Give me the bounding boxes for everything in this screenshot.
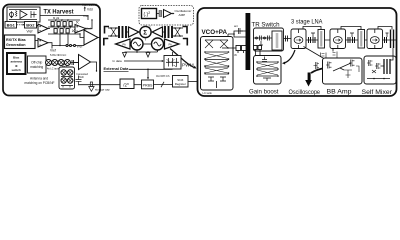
svg-text:External Data: External Data [104, 67, 130, 71]
op-amp A3 [75, 19, 93, 33]
VCO PA block [201, 37, 234, 91]
wire [134, 84, 142, 86]
scope wire [311, 68, 325, 73]
op-amp A2 [35, 39, 52, 49]
svg-text:4x LC tank: 4x LC tank [47, 68, 60, 71]
RX/TX bias generation block [5, 35, 36, 49]
svg-text:Harvested: Harvested [82, 3, 97, 7]
svg-text:AVref: AVref [85, 27, 92, 31]
tune arrow V2 [146, 53, 150, 58]
LNA output transformer [391, 30, 394, 49]
squarer block [142, 9, 157, 19]
svg-text:On/Off Ch: On/Off Ch [156, 74, 170, 78]
svg-text:PA: PA [123, 43, 127, 47]
svg-text:matching on PCB/NF: matching on PCB/NF [25, 81, 55, 85]
wire [157, 13, 160, 15]
transformer T1 [119, 26, 126, 38]
TR switch block [254, 28, 284, 51]
svg-text:Vdd: Vdd [87, 7, 93, 11]
svg-text:BG1: BG1 [7, 23, 16, 28]
wire PRBS to shift register [154, 82, 173, 87]
buffer amp A4 [84, 27, 100, 45]
mixer X2 [52, 60, 58, 66]
svg-text:AMP: AMP [179, 13, 186, 17]
svg-text:Register: Register [175, 82, 186, 86]
storage arrow down [89, 82, 94, 91]
wire drops [146, 25, 150, 28]
LC tank cluster [59, 65, 75, 89]
wire LNA input [284, 36, 397, 42]
LNA transformer 1 [318, 30, 325, 49]
self mixer block [364, 56, 396, 84]
capacitor C3 [159, 11, 162, 17]
capacitor C6 [385, 37, 387, 43]
tune arrow V1 [123, 53, 127, 58]
feedback arrow into gain boost [282, 50, 295, 65]
tune wire [125, 50, 158, 53]
bandgap BG2 [25, 22, 37, 29]
svg-text:3 stage LNA: 3 stage LNA [291, 19, 323, 26]
cross-coupling right [174, 27, 181, 37]
label External Data [104, 67, 130, 71]
PWM block [164, 56, 181, 70]
wire vco top rail [108, 28, 183, 41]
svg-text:Gain boost: Gain boost [249, 89, 279, 96]
panel frame right [198, 8, 397, 96]
label In data [113, 59, 164, 63]
svg-text:BB Amp: BB Amp [327, 89, 353, 96]
capacitor C4 [309, 37, 316, 43]
svg-text:Vref: Vref [50, 49, 56, 53]
storage capacitor [76, 76, 82, 86]
transistor Q1 [234, 24, 243, 34]
BB amp block [314, 49, 363, 85]
PA amp right [165, 39, 180, 49]
capacitor C1 [72, 60, 74, 65]
svg-text:VCO+PA: VCO+PA [202, 29, 228, 36]
wire top rail [40, 16, 88, 21]
cross-coupling left [110, 27, 117, 37]
shift register block [173, 76, 189, 88]
scope arrow [305, 73, 312, 87]
wire between oscillators [143, 43, 153, 45]
svg-text:Oscilloscope: Oscilloscope [289, 89, 321, 96]
svg-text:matching: matching [30, 65, 43, 69]
svg-text:Vref: Vref [27, 29, 33, 33]
wire diagonal to BB amp [304, 47, 341, 69]
svg-text:switch: switch [12, 68, 22, 72]
bracket top-right [183, 27, 188, 34]
PA amp left [116, 39, 131, 49]
svg-text:TX Harvest: TX Harvest [44, 8, 75, 15]
charge pump ladder [48, 19, 80, 34]
svg-text:BG2: BG2 [26, 23, 35, 28]
LNA top bias wires [303, 27, 392, 38]
svg-text:M clk: M clk [53, 16, 60, 20]
wire to panel [189, 81, 198, 83]
bracket bottom-left [104, 39, 109, 46]
wire arrow [172, 13, 175, 15]
bandgap BG1 [5, 22, 17, 29]
op-amp A1 [37, 24, 51, 33]
dashed wire BG1 to BG2 [17, 24, 24, 26]
mixer X4 [64, 60, 70, 66]
svg-text:Self Mixer: Self Mixer [362, 89, 393, 96]
wire mixer row [46, 62, 78, 64]
amp A7 [129, 27, 139, 37]
mixer X3 [58, 60, 64, 66]
svg-text:Generation: Generation [6, 43, 26, 47]
svg-text:Off-chip: Off-chip [31, 61, 42, 65]
svg-text:PAD: PAD [79, 75, 84, 79]
svg-text:In data: In data [113, 59, 123, 63]
mixer X1 [46, 60, 52, 66]
LNA cell 1 [291, 29, 306, 49]
svg-text:Vref: Vref [83, 14, 89, 18]
wire to divider [79, 84, 121, 86]
wire LNA out [392, 48, 394, 56]
LNA transformer 2 [358, 30, 365, 49]
LNA cell 2 [330, 29, 346, 49]
transformer T2 [165, 26, 172, 38]
label Oscillations AMP [175, 9, 192, 17]
gain boost block [254, 56, 282, 85]
wire VCO to antenna [228, 31, 246, 37]
PRBS block [142, 80, 154, 89]
off-chip matching block [28, 56, 47, 73]
amp A6 [164, 10, 172, 18]
node phi Vref [52, 34, 84, 48]
divider block [120, 79, 134, 89]
antenna caption [25, 77, 55, 85]
wire external data [129, 69, 173, 80]
svg-text:ant: ant [234, 24, 238, 28]
svg-text:LC tank: LC tank [203, 91, 213, 95]
bias matching block [7, 53, 26, 74]
antenna bar [246, 13, 251, 70]
svg-text:PWM: PWM [182, 63, 194, 69]
capacitor C7 [254, 46, 262, 56]
buffer amp A5 [74, 55, 97, 72]
bias box Vb [222, 46, 246, 58]
bracket bottom-right [183, 39, 188, 46]
summing node [140, 26, 151, 37]
label harvested PAD [77, 72, 89, 79]
svg-text:PRBS: PRBS [143, 84, 154, 88]
svg-text:5.8G NFC/LC: 5.8G NFC/LC [50, 53, 66, 57]
svg-text:storage cap: storage cap [95, 88, 110, 92]
wire PWM to tune [172, 52, 174, 56]
bracket top-left [105, 27, 110, 34]
svg-text:Σ: Σ [143, 29, 147, 36]
LNA cell 3 [367, 29, 383, 49]
capacitor C5 [348, 37, 355, 43]
node Harvested Vdd [82, 3, 97, 12]
envelope detector frame [139, 6, 194, 26]
svg-text:PA: PA [169, 43, 173, 47]
startup reference box U1 [7, 7, 40, 22]
oscillator O1 [131, 38, 143, 50]
blowup arrow to right panel [170, 49, 197, 69]
svg-text:LC x: LC x [62, 65, 68, 68]
wire ladder to A4 [74, 33, 84, 37]
svg-text:RX/TX Bias: RX/TX Bias [6, 38, 26, 42]
svg-text:Vref: Vref [77, 44, 83, 48]
panel frame left [3, 5, 100, 96]
oscillator O2 [152, 38, 164, 50]
amp A8 [152, 27, 162, 37]
